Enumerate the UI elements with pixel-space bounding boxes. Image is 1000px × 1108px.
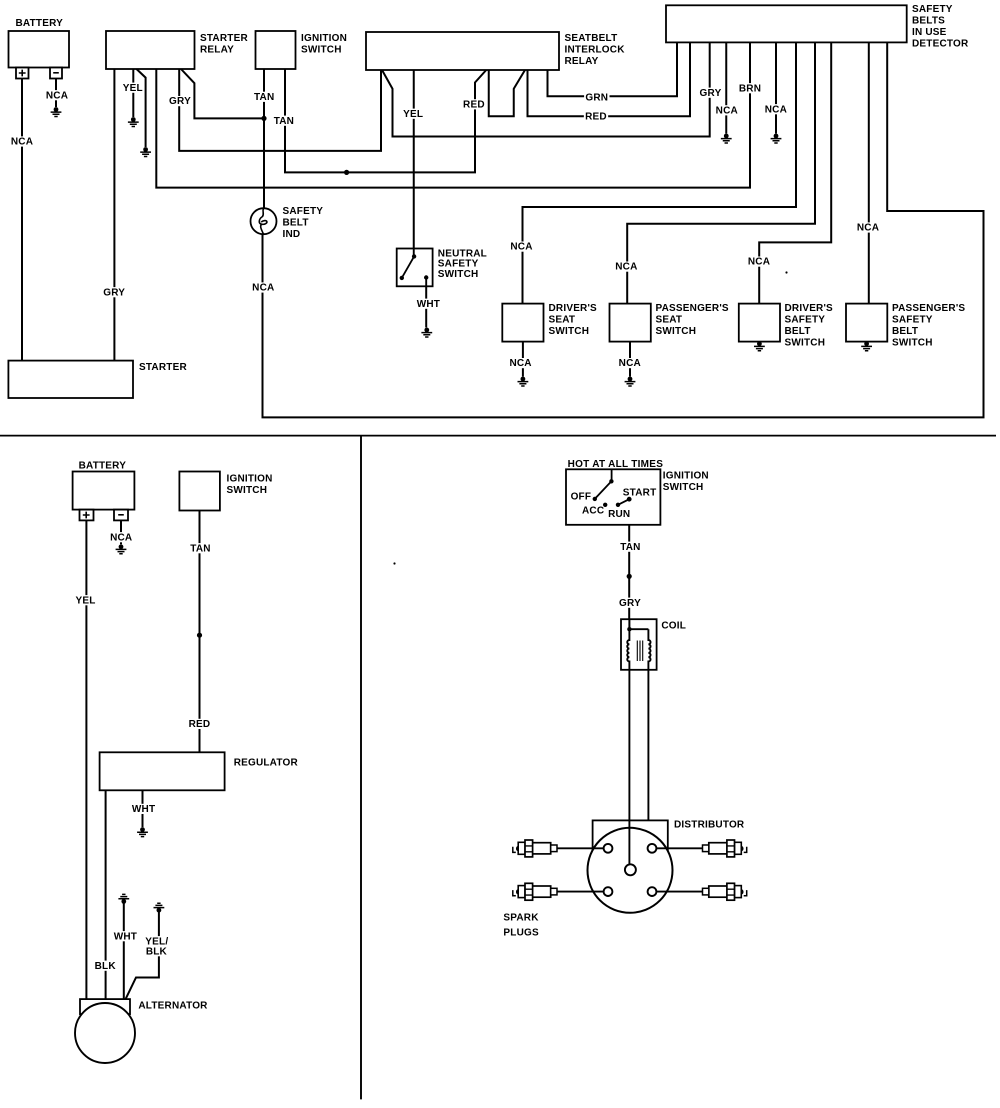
svg-text:SAFETY: SAFETY: [283, 206, 324, 217]
svg-text:NCA: NCA: [46, 90, 68, 101]
svg-text:ALTERNATOR: ALTERNATOR: [138, 1001, 208, 1012]
svg-text:COIL: COIL: [661, 621, 686, 632]
svg-text:RUN: RUN: [608, 509, 630, 520]
svg-text:BELT: BELT: [283, 217, 309, 228]
svg-text:GRY: GRY: [169, 96, 191, 107]
svg-text:NCA: NCA: [765, 104, 787, 115]
svg-text:BRN: BRN: [739, 83, 761, 94]
svg-text:NCA: NCA: [252, 283, 274, 294]
svg-text:IND: IND: [283, 229, 301, 240]
svg-text:IN USE: IN USE: [912, 27, 947, 38]
svg-text:NCA: NCA: [619, 358, 641, 369]
svg-text:ACC: ACC: [582, 506, 604, 517]
svg-text:RED: RED: [189, 719, 211, 730]
svg-text:DRIVER'S: DRIVER'S: [549, 303, 598, 314]
svg-text:DETECTOR: DETECTOR: [912, 38, 969, 49]
svg-text:GRN: GRN: [585, 93, 608, 104]
svg-text:GRY: GRY: [103, 287, 125, 298]
svg-text:SAFETY: SAFETY: [785, 315, 826, 326]
svg-text:RED: RED: [463, 99, 485, 110]
svg-text:YEL: YEL: [123, 83, 143, 94]
svg-text:DRIVER'S: DRIVER'S: [785, 303, 834, 314]
svg-text:SAFETY: SAFETY: [892, 315, 933, 326]
svg-text:SWITCH: SWITCH: [892, 338, 933, 349]
svg-text:NCA: NCA: [110, 532, 132, 543]
svg-text:RED: RED: [585, 112, 607, 123]
svg-text:START: START: [623, 487, 657, 498]
svg-text:SAFETY: SAFETY: [912, 4, 953, 15]
svg-text:IGNITION: IGNITION: [227, 474, 273, 485]
svg-text:SEATBELT: SEATBELT: [565, 33, 618, 44]
svg-text:IGNITION: IGNITION: [301, 33, 347, 44]
svg-text:SWITCH: SWITCH: [663, 482, 704, 493]
svg-text:BELT: BELT: [785, 326, 811, 337]
svg-text:BLK: BLK: [95, 961, 117, 972]
svg-text:SEAT: SEAT: [549, 315, 576, 326]
svg-text:GRY: GRY: [700, 88, 722, 99]
svg-text:OFF: OFF: [571, 491, 592, 502]
svg-text:REGULATOR: REGULATOR: [234, 757, 299, 768]
svg-text:NCA: NCA: [748, 257, 770, 268]
svg-text:SWITCH: SWITCH: [785, 338, 826, 349]
svg-text:TAN: TAN: [254, 92, 274, 103]
svg-text:BATTERY: BATTERY: [79, 460, 127, 471]
svg-text:YEL: YEL: [403, 109, 423, 120]
svg-text:NCA: NCA: [716, 105, 738, 116]
svg-text:WHT: WHT: [417, 299, 440, 310]
svg-text:NCA: NCA: [857, 223, 879, 234]
svg-text:NCA: NCA: [509, 358, 531, 369]
svg-text:HOT AT ALL TIMES: HOT AT ALL TIMES: [568, 459, 664, 470]
svg-text:SWITCH: SWITCH: [438, 269, 479, 280]
svg-text:IGNITION: IGNITION: [663, 471, 709, 482]
svg-text:WHT: WHT: [114, 931, 137, 942]
svg-text:RELAY: RELAY: [200, 44, 234, 55]
svg-text:NCA: NCA: [11, 137, 33, 148]
svg-text:TAN: TAN: [190, 543, 210, 554]
svg-text:STARTER: STARTER: [139, 362, 187, 373]
svg-text:WHT: WHT: [132, 804, 155, 815]
svg-text:BATTERY: BATTERY: [16, 18, 64, 29]
svg-text:BLK: BLK: [146, 946, 168, 957]
svg-text:SEAT: SEAT: [656, 315, 683, 326]
svg-text:NCA: NCA: [510, 242, 532, 253]
svg-text:PASSENGER'S: PASSENGER'S: [892, 303, 965, 314]
svg-text:INTERLOCK: INTERLOCK: [565, 44, 626, 55]
svg-text:YEL: YEL: [75, 595, 95, 606]
svg-text:SWITCH: SWITCH: [656, 326, 697, 337]
svg-text:SWITCH: SWITCH: [549, 326, 590, 337]
svg-text:PLUGS: PLUGS: [503, 928, 539, 939]
svg-text:SPARK: SPARK: [503, 913, 539, 924]
svg-text:DISTRIBUTOR: DISTRIBUTOR: [674, 820, 745, 831]
svg-text:STARTER: STARTER: [200, 33, 248, 44]
svg-text:RELAY: RELAY: [565, 56, 599, 67]
svg-text:SWITCH: SWITCH: [227, 485, 268, 496]
svg-text:NCA: NCA: [615, 262, 637, 273]
svg-text:GRY: GRY: [619, 598, 641, 609]
svg-text:PASSENGER'S: PASSENGER'S: [656, 303, 729, 314]
svg-text:BELT: BELT: [892, 326, 918, 337]
svg-text:TAN: TAN: [620, 542, 640, 553]
svg-text:TAN: TAN: [274, 116, 294, 127]
svg-text:SWITCH: SWITCH: [301, 44, 342, 55]
svg-text:BELTS: BELTS: [912, 15, 945, 26]
